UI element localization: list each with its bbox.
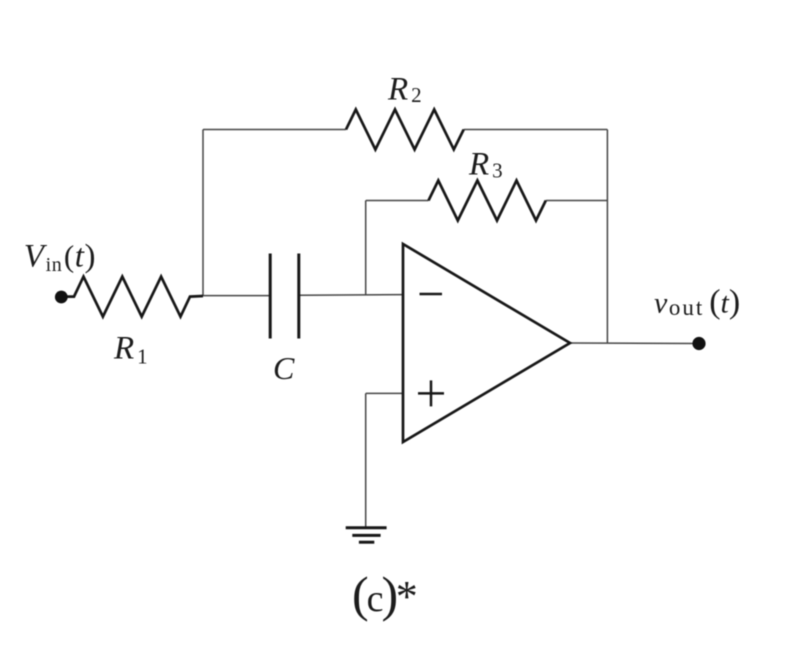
wire: op-amp output to terminal [570, 342, 699, 345]
svg-text:R1: R1 [113, 331, 148, 369]
wire: R3 left horizontal [366, 200, 429, 202]
capacitor C [270, 254, 299, 339]
wire: capacitor right plate to op-amp inverting input [299, 294, 403, 297]
wire: vertical down to ground [365, 393, 367, 527]
ground [346, 528, 387, 543]
resistor R3 [429, 181, 546, 221]
svg-text:vout(t): vout(t) [654, 284, 740, 321]
wire: feedback vertical down to output [606, 130, 608, 344]
svg-text:R3: R3 [468, 147, 503, 183]
wire: non-inverting input horizontal [366, 392, 403, 394]
node: output terminal dot [692, 337, 705, 350]
wire: node A to capacitor left plate [203, 295, 270, 297]
wire: vertical from node A up to R2 row [202, 130, 204, 297]
svg-text:Vin(t): Vin(t) [24, 239, 96, 277]
svg-text:(c)*: (c)* [352, 566, 418, 622]
op-amp minus sign [420, 293, 443, 296]
wire: R2 right to feedback vertical [464, 129, 608, 131]
wire: R3 tap vertical down to inverting line [365, 201, 367, 296]
wire: top horizontal to R2 left [203, 129, 346, 131]
resistor R2 [346, 110, 464, 150]
svg-text:C: C [273, 350, 295, 386]
resistor R1 [66, 277, 203, 317]
node: input terminal dot [55, 291, 68, 304]
svg-text:R2: R2 [387, 72, 422, 108]
op-amp U1 [403, 244, 570, 442]
wire: R3 right to feedback vertical [546, 200, 608, 202]
op-amp plus sign [418, 380, 444, 406]
